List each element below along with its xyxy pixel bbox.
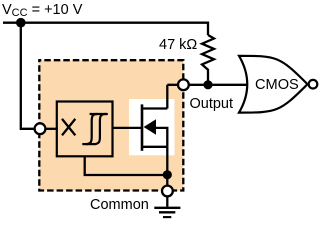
svg-text:Common: Common bbox=[90, 197, 149, 213]
svg-text:Output: Output bbox=[190, 96, 234, 112]
svg-text:47 kΩ: 47 kΩ bbox=[159, 37, 197, 53]
svg-text:CMOS: CMOS bbox=[255, 77, 299, 93]
